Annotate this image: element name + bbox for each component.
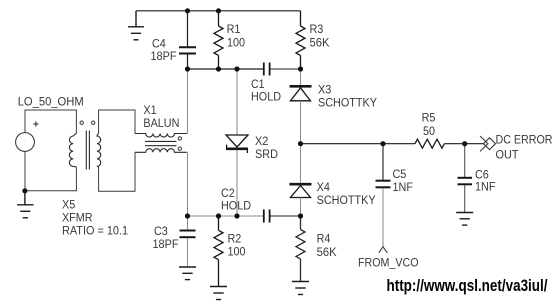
resistor R5 <box>415 139 444 148</box>
ground (C6) <box>456 213 473 226</box>
wire balun bottom to node <box>186 152 189 216</box>
svg-text:56K: 56K <box>317 245 338 259</box>
phase dot X5 secondary <box>92 121 95 124</box>
label R1 100 <box>227 22 245 49</box>
wire X5 secondary top to balun <box>99 110 135 134</box>
source X5 LO (circle) <box>16 121 39 151</box>
wire source top loop <box>25 110 76 133</box>
wire C5 to port <box>382 188 384 247</box>
capacitor C5 <box>376 181 391 188</box>
wire X3 cathode lead <box>300 69 302 85</box>
label X3 SCHOTTKY <box>318 82 377 109</box>
svg-text:X2: X2 <box>255 134 268 148</box>
svg-text:C5: C5 <box>393 167 407 181</box>
svg-text:1NF: 1NF <box>475 180 496 194</box>
svg-text:X5: X5 <box>62 198 75 212</box>
svg-text:R1: R1 <box>227 22 241 36</box>
svg-text:HOLD: HOLD <box>221 199 251 213</box>
svg-text:C3: C3 <box>154 224 168 238</box>
svg-text:BALUN: BALUN <box>143 116 179 130</box>
diode X2 SRD <box>226 135 248 153</box>
svg-text:R4: R4 <box>317 231 331 245</box>
svg-text:56K: 56K <box>310 35 331 49</box>
wire C6 top lead <box>464 144 466 177</box>
junction bottom X4/R4 <box>298 213 303 218</box>
label X4 SCHOTTKY <box>317 180 376 207</box>
svg-text:1NF: 1NF <box>393 180 414 194</box>
label url <box>387 277 548 295</box>
label FROM_VCO <box>358 256 419 270</box>
svg-text:RATIO = 10.1: RATIO = 10.1 <box>62 224 128 238</box>
node rail (C4/R1/C1/X2) <box>188 68 264 70</box>
transformer X5 core <box>86 131 89 170</box>
label C4 18PF <box>151 36 177 63</box>
ground (R2) <box>210 287 227 300</box>
junction node C4 <box>185 66 190 71</box>
dc error net rail <box>301 143 416 145</box>
wire balun top to node <box>186 69 189 134</box>
svg-text:R5: R5 <box>422 111 436 125</box>
label C5 1NF <box>393 167 414 194</box>
phase dot X5 primary <box>80 121 83 124</box>
label R3 56K <box>310 22 331 49</box>
capacitor C4 <box>179 11 196 69</box>
svg-text:DC ERROR: DC ERROR <box>496 133 553 147</box>
balun X1 bottom winding <box>135 149 187 153</box>
svg-text:X3: X3 <box>318 82 331 96</box>
capacitor C1 <box>264 63 301 76</box>
capacitor C3 <box>180 216 196 267</box>
label R4 56K <box>317 231 338 259</box>
transformer X5 primary winding <box>69 133 76 167</box>
balun X1 top winding <box>135 134 187 138</box>
svg-text:X1: X1 <box>143 103 156 117</box>
junction source/ground <box>22 188 27 193</box>
svg-text:SCHOTTKY: SCHOTTKY <box>318 96 377 110</box>
junction rail C5 <box>380 141 385 146</box>
top supply rail wire <box>136 10 301 12</box>
junction rail X3/X4 <box>298 141 303 146</box>
phase dot X1 bottom <box>178 147 181 150</box>
svg-text:SRD: SRD <box>255 147 278 161</box>
resistor R3 <box>296 11 305 69</box>
junction top rail C4 <box>185 8 190 13</box>
ground (top left) <box>128 11 144 40</box>
svg-text:100: 100 <box>227 35 245 49</box>
junction node R1 <box>216 66 221 71</box>
wire X2 anode <box>236 69 238 135</box>
capacitor C6 <box>458 178 473 213</box>
bottom node rail (C3/R2/X2/C2) <box>188 215 264 217</box>
diode X3 <box>290 86 312 101</box>
balun X1 core <box>145 141 177 145</box>
svg-text:XFMR: XFMR <box>62 211 93 225</box>
wire X2 cathode <box>236 150 238 216</box>
svg-text:50: 50 <box>423 124 435 138</box>
junction bottom C3 <box>185 213 190 218</box>
svg-text:100: 100 <box>228 245 246 259</box>
ground (source) <box>17 191 33 218</box>
resistor R4 <box>296 216 305 281</box>
resistor R1 <box>214 11 223 69</box>
junction top rail R1 <box>216 8 221 13</box>
svg-text:http://www.qsl.net/va3iul/: http://www.qsl.net/va3iul/ <box>387 277 548 295</box>
wire X4 anode lead <box>300 198 302 217</box>
label X2 SRD <box>255 134 278 161</box>
svg-text:X4: X4 <box>317 180 330 194</box>
wire R5 to port <box>444 143 483 145</box>
wire C5 top lead <box>382 144 384 180</box>
wire X4 cathode lead <box>300 144 302 183</box>
junction node X2 <box>234 66 239 71</box>
wire X3 anode lead <box>300 101 302 144</box>
port FROM_VCO <box>379 247 388 253</box>
port DC ERROR OUT <box>480 136 496 151</box>
transformer X5 secondary winding <box>97 133 101 167</box>
resistor R2 <box>214 216 223 286</box>
label DC ERROR OUT <box>496 133 553 162</box>
ground (R4) <box>292 282 309 295</box>
label C3 18PF <box>153 224 179 251</box>
junction node R3/X3 <box>298 66 303 71</box>
capacitor C2 <box>264 210 301 223</box>
svg-text:OUT: OUT <box>496 148 519 162</box>
ground (C3) <box>179 267 196 280</box>
label X1 BALUN <box>143 103 179 130</box>
svg-text:SCHOTTKY: SCHOTTKY <box>317 193 376 207</box>
diode X4 <box>290 184 312 197</box>
svg-text:HOLD: HOLD <box>251 90 281 104</box>
wire X5 secondary bottom to balun <box>99 152 135 191</box>
svg-text:R2: R2 <box>228 232 242 246</box>
label C6 1NF <box>475 168 496 194</box>
label R5 50 <box>422 111 436 139</box>
svg-text:18PF: 18PF <box>151 49 177 63</box>
label R2 100 <box>228 232 246 259</box>
label LO_50_OHM <box>18 95 84 109</box>
junction rail C6 <box>462 141 467 146</box>
svg-text:18PF: 18PF <box>153 237 179 251</box>
label C2 HOLD <box>221 186 251 213</box>
junction bottom R2 <box>216 213 221 218</box>
svg-text:R3: R3 <box>310 22 324 36</box>
junction bottom X2 <box>234 213 239 218</box>
label C1 HOLD <box>251 77 281 104</box>
svg-text:FROM_VCO: FROM_VCO <box>358 256 419 270</box>
wire source bottom loop <box>25 151 77 190</box>
label X5 XFMR RATIO <box>62 198 128 238</box>
svg-text:LO_50_OHM: LO_50_OHM <box>18 95 84 109</box>
phase dot X1 top <box>178 137 181 140</box>
